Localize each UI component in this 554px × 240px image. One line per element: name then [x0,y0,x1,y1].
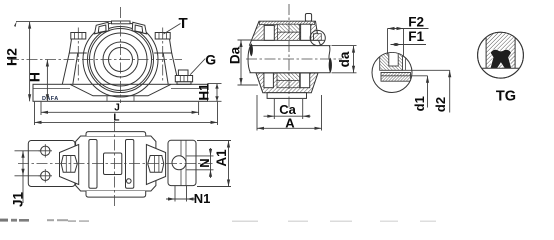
A extension lines [257,95,322,131]
housing boss slant right outer [172,53,179,84]
detail F circle [372,53,412,93]
A1 extension lines [197,141,231,187]
svg-text:F2: F2 [408,14,424,29]
svg-text:J1: J1 [11,192,26,208]
side lug left [60,145,79,185]
L extension lines [35,102,218,125]
housing cap section band [252,21,319,40]
cap bolt hole right white [301,24,311,40]
shaft surface line [477,67,524,69]
N1 extension lines [175,186,187,202]
base outline [33,84,208,101]
cap outer dense strip [260,21,315,24]
shaft right end lens [329,58,332,73]
svg-text:H1: H1 [197,83,212,101]
right slot hole circle [172,156,186,170]
base bolt hole right white [300,73,310,88]
N extension lines [187,156,214,170]
grease nut G pad [177,82,191,85]
base step line right [171,88,208,90]
shaft left end lens [250,43,253,56]
stud head right [155,33,170,40]
J dimension line [41,111,199,113]
right plate fold line [181,140,186,185]
F2 dimension line [388,28,429,30]
svg-text:da: da [337,51,352,67]
seal flange left [249,40,320,45]
J extension lines [41,102,199,115]
front view horizontal centerline [8,59,182,61]
gland side verticals [486,31,515,68]
H1 dimension line [216,84,218,102]
cap joint slot right [126,140,134,189]
svg-text:TG: TG [496,89,516,105]
shaft left break curve [248,46,250,73]
shaft bottom line [250,72,331,74]
H dimension line [46,60,48,102]
N1 dimension line [166,198,196,200]
A dimension line [257,127,322,129]
cap bolt hole left white [264,25,274,40]
top view horizontal centerline [18,163,213,165]
housing boss slant right inner [163,53,168,84]
housing outer circle [83,22,158,97]
housing base section band [256,73,318,93]
right flange plate [168,140,196,185]
stud head left [71,33,86,40]
svg-text:T: T [179,15,188,32]
L dimension line [35,121,218,123]
housing edge block hatched [380,50,403,70]
TG felt seal dark profile [491,50,512,69]
shaft body [250,46,330,73]
da dimension line [353,46,355,73]
under-housing feet ticks [107,96,134,102]
grease stud on cap [305,14,311,22]
cut-off caption text remnants [0,219,8,222]
detail TG circle [478,32,524,78]
base step line left [33,88,70,90]
grease nut G top [178,70,188,76]
shaft right break curve [329,46,331,73]
roller zone bottom upper row [277,73,300,80]
top view cap bump top [86,132,146,136]
bearing outer circle [94,33,147,86]
T leader line [164,24,181,35]
svg-text:Da: Da [228,46,243,64]
da extension lines [332,46,357,73]
A1 dimension line [228,141,230,187]
J1 dimension line [22,151,24,203]
cap joint slot left [89,140,97,189]
detail balloon circle [314,34,322,41]
housing boss slant left inner [73,53,78,84]
front view vertical centerline [120,7,122,103]
hex bolt head right [148,156,164,173]
svg-text:A: A [285,115,295,130]
Ca extension lines [274,99,302,119]
svg-text:H: H [27,72,43,82]
Da extension lines [238,40,259,85]
housing ring circle r31 [90,29,152,91]
roller zone bottom row [278,32,300,40]
shaft top line [250,45,331,47]
shaft centerline [246,58,342,60]
bolt hole bottom-left [41,171,50,180]
section foot [267,93,306,99]
svg-text:N1: N1 [194,191,211,206]
Ca dimension line [264,115,311,117]
Da dimension line [240,40,242,85]
side lug right [146,145,165,185]
svg-text:N: N [197,158,212,167]
H2 dimension line [29,22,31,102]
svg-text:A1: A1 [214,149,229,167]
groove edge verticals up [388,29,404,56]
svg-text:G: G [205,51,216,67]
G leader line [190,59,205,75]
cap lug left [95,22,109,34]
roller zone top row [278,24,300,32]
roller zone bottom lower row [277,80,300,87]
svg-text:d1: d1 [412,96,427,111]
top view body octagon [76,136,156,191]
stud pedestal right [154,39,172,53]
cap top plate [112,21,131,24]
gland hatched region [486,31,515,68]
F1 dimension line [391,44,427,46]
housing boss slant left outer [62,53,69,84]
band boundary lines [381,75,411,77]
hex bolt head left [61,156,77,173]
d1 extension and dimension line [410,76,428,108]
N dimension line [210,148,212,178]
lower band dense hatch [381,73,411,82]
section vertical centerline [288,4,290,110]
bore circle [109,48,133,72]
base bolt hole left white [264,73,274,88]
left flange plate [28,141,75,187]
top view cap bump bottom [86,191,146,197]
svg-text:DAFA: DAFA [42,96,59,102]
svg-text:d2: d2 [433,97,448,112]
bearing inner ring circle [103,42,138,77]
top view vertical centerline [114,121,116,206]
cap lug right [132,22,146,34]
svg-text:H2: H2 [4,48,20,66]
oil hole small circle [127,179,132,184]
stud centerline right [162,28,164,83]
J1 extension lines [15,151,41,176]
stud pedestal left [69,39,87,53]
svg-text:F1: F1 [408,29,424,44]
H2 extension line top [16,21,112,23]
under-housing profile left [70,84,171,96]
grease nut G body [175,76,192,82]
center square boss [104,153,122,175]
H1 extension lines [208,84,222,102]
housing ring circle r33 [88,27,154,93]
cap bolt right [135,25,143,33]
ring groove white notch [389,49,398,66]
stud centerline left [77,28,79,83]
cap bolt left [98,25,106,33]
d2 extension and dimension line [403,70,450,112]
bolt hole top-left [41,146,50,155]
